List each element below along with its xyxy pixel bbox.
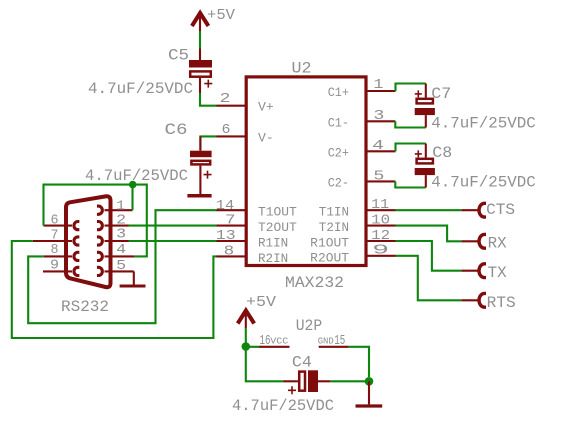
svg-text:9: 9 [372,243,389,259]
wire R1IN to DB9.3 [129,240,217,242]
+5V supply symbol top [192,7,235,31]
DB9 contact 2 [97,222,102,230]
wire C7 bottom to C1- [395,121,426,127]
svg-text:C4: C4 [292,354,312,372]
svg-text:C2-: C2- [328,176,349,190]
svg-text:4.7uF/25VDC: 4.7uF/25VDC [431,115,536,133]
svg-text:1: 1 [373,77,383,93]
wire T2IN to RX [396,226,462,242]
DB9 pin stub 6 [44,225,73,227]
IC pin stub R2OUT (9) [366,255,396,257]
DB9 pin stub 1 [105,209,133,211]
svg-text:4.7uF/25VDC: 4.7uF/25VDC [232,397,334,415]
ground symbol below DB9 pin 5 [120,285,146,288]
svg-text:3: 3 [116,227,126,243]
DB9 connector RS232 outline [66,196,111,287]
DB9 contact 4 [97,252,102,260]
IC pin stub C1- (3) [366,120,395,122]
svg-text:TX: TX [488,264,507,282]
svg-text:C5: C5 [168,47,189,65]
wire C1+ to C7 top [396,84,426,92]
svg-text:4.7uF/25VDC: 4.7uF/25VDC [88,80,193,98]
DB9 pin stub 9 unconnected [43,270,72,272]
ground symbol bottom right [356,404,383,407]
svg-text:T1IN: T1IN [319,206,349,220]
DB9 pin stub 8 [44,255,72,257]
wire DB9.5 to ground [133,271,135,284]
svg-text:T1OUT: T1OUT [258,206,297,220]
wire net DSR/DCD/DTR (DB9 pins 1,4,6) [44,185,147,257]
IC pin stub T1IN (11) [366,209,396,211]
svg-text:V-: V- [258,132,274,146]
DB9 contact 8 [74,252,79,260]
junction dot GND net [365,377,374,386]
svg-text:+5V: +5V [246,294,276,311]
IC pin stub R1OUT (12) [366,240,396,242]
wire C5 to V+ pin [200,93,217,106]
IC U2 MAX232 box [246,77,366,266]
DB9 contact 3 [97,237,102,245]
DB9 contact 9 [74,267,79,275]
svg-text:RS232: RS232 [61,298,109,316]
svg-text:C6: C6 [165,121,188,139]
svg-text:9: 9 [50,257,59,273]
svg-text:T2IN: T2IN [319,221,349,235]
DB9 pin stub 4 [105,255,135,257]
svg-text:C7: C7 [431,85,451,103]
svg-text:T2OUT: T2OUT [258,221,297,235]
IC pin stub R2IN (8) [217,255,247,257]
wire T2OUT to DB9.2 [129,225,217,227]
wire VCC junction down to C4 [246,347,284,382]
svg-text:15: 15 [334,333,345,349]
DB9 contact 5 [97,267,102,275]
wire R1OUT to TX [396,241,462,271]
svg-text:13: 13 [216,228,236,244]
wire R2OUT to RTS [396,256,462,300]
+5V supply symbol bottom [238,294,276,328]
svg-text:4: 4 [372,138,384,154]
svg-text:R1OUT: R1OUT [310,237,349,251]
wire C8 bottom to C2- [395,181,426,187]
U2P power symbol pin 16 VCC [259,333,290,349]
svg-text:C1+: C1+ [328,86,349,100]
svg-text:R2OUT: R2OUT [310,251,349,265]
wire R2IN to DB9.7 [12,241,217,338]
svg-text:6: 6 [51,212,59,228]
connector pin TX [461,264,486,278]
wire C4 right to junction [330,380,369,382]
capacitor C4 [284,370,331,394]
svg-text:7: 7 [225,213,236,229]
svg-text:16: 16 [260,333,271,349]
IC pin stub V- (6) [217,135,247,137]
connector pin RTS [461,293,486,307]
svg-text:C8: C8 [432,144,452,162]
DB9 contact 7 [74,237,79,245]
IC pin stub T1OUT (14) [217,209,247,211]
IC pin stub T2IN (10) [366,225,396,227]
svg-text:U2: U2 [292,60,312,78]
svg-text:RX: RX [488,235,507,253]
svg-text:5: 5 [116,258,126,274]
DB9 pin stub 3 [105,240,129,242]
svg-text:11: 11 [371,197,389,213]
svg-text:+5V: +5V [207,7,235,24]
svg-text:RTS: RTS [487,294,516,312]
svg-text:U2P: U2P [296,317,323,335]
junction dot VCC net [242,342,251,351]
svg-text:10: 10 [371,213,390,229]
svg-text:5: 5 [373,169,384,185]
DB9 pin stub 5 [105,270,134,272]
capacitor C8 [415,144,435,188]
junction dot at pins 1/6/4 net [129,181,137,189]
capacitor C5 [189,49,212,94]
wire T1IN to CTS [396,209,462,211]
wire DB9.1 riser [131,185,133,211]
DB9 contact 1 [97,206,102,214]
wire +5V to junction [246,328,259,347]
svg-text:VCC: VCC [270,335,288,346]
connector pin CTS [461,203,486,217]
IC pin stub C1+ (1) [366,90,396,92]
DB9 pin stub 2 [105,225,129,227]
svg-text:4.7uF/25VDC: 4.7uF/25VDC [431,174,536,192]
ground symbol below C6 [187,194,211,198]
svg-text:MAX232: MAX232 [285,274,344,292]
svg-text:GND: GND [318,335,334,346]
U2P power symbol pin 15 GND [318,333,349,349]
svg-text:R1IN: R1IN [258,237,288,251]
svg-text:R2IN: R2IN [258,252,288,266]
wire V- to C6 [200,136,216,150]
wire GND pin to right column [349,347,369,377]
svg-text:3: 3 [373,108,384,124]
IC pin stub T2OUT (7) [217,225,247,227]
capacitor C7 [415,84,435,128]
svg-text:2: 2 [220,91,231,107]
svg-text:V+: V+ [258,101,274,115]
svg-text:4: 4 [116,242,126,258]
svg-text:C2+: C2+ [328,146,349,160]
IC pin stub R1IN (13) [217,240,247,242]
connector pin RX [461,234,486,248]
DB9 pin stub 7 [33,240,72,242]
IC pin stub C2+ (4) [366,150,396,152]
IC pin stub C2- (5) [366,180,395,182]
capacitor C6 [190,136,212,194]
wire junction to ground [368,381,370,404]
svg-text:CTS: CTS [486,201,515,219]
DB9 contact 6 [74,222,79,230]
svg-text:8: 8 [51,242,59,258]
wire +5V to C5 [199,31,201,49]
IC pin stub V+ (2) [217,105,247,107]
wire C2+ to C8 top [396,144,426,152]
svg-text:C1-: C1- [328,116,349,130]
wire T1OUT to DB9.8 [28,210,216,323]
svg-text:4.7uF/25VDC: 4.7uF/25VDC [85,167,188,185]
svg-text:8: 8 [224,243,235,259]
